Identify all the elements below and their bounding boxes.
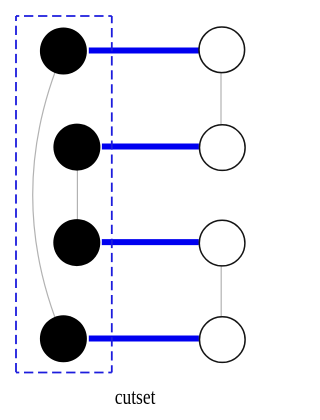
blue cut edge row4 [89, 335, 199, 341]
cutset dashed rectangle bottom edge [16, 372, 112, 374]
gray edge white3-white4 [220, 243, 222, 340]
white node 1 [199, 27, 245, 73]
white node 3 [199, 220, 245, 266]
white node 2 [200, 125, 246, 171]
black node 1 [40, 28, 87, 75]
gray edge node2-node3 [76, 147, 78, 243]
white node 4 [200, 317, 246, 363]
svg-text:cutset: cutset [115, 384, 156, 409]
cutset dashed rectangle right edge [111, 16, 113, 373]
cutset dashed rectangle left edge [15, 16, 17, 373]
black node 2 [53, 124, 100, 171]
gray edge white1-white2 [220, 50, 222, 148]
black node 3 [53, 219, 100, 266]
cutset dashed rectangle top edge [16, 15, 112, 17]
blue cut edge row2 [102, 143, 199, 149]
black node 4 [40, 315, 87, 362]
gray edge arc node1-node4 [33, 51, 64, 339]
blue cut edge row1 [89, 48, 199, 54]
blue cut edge row3 [102, 239, 199, 245]
